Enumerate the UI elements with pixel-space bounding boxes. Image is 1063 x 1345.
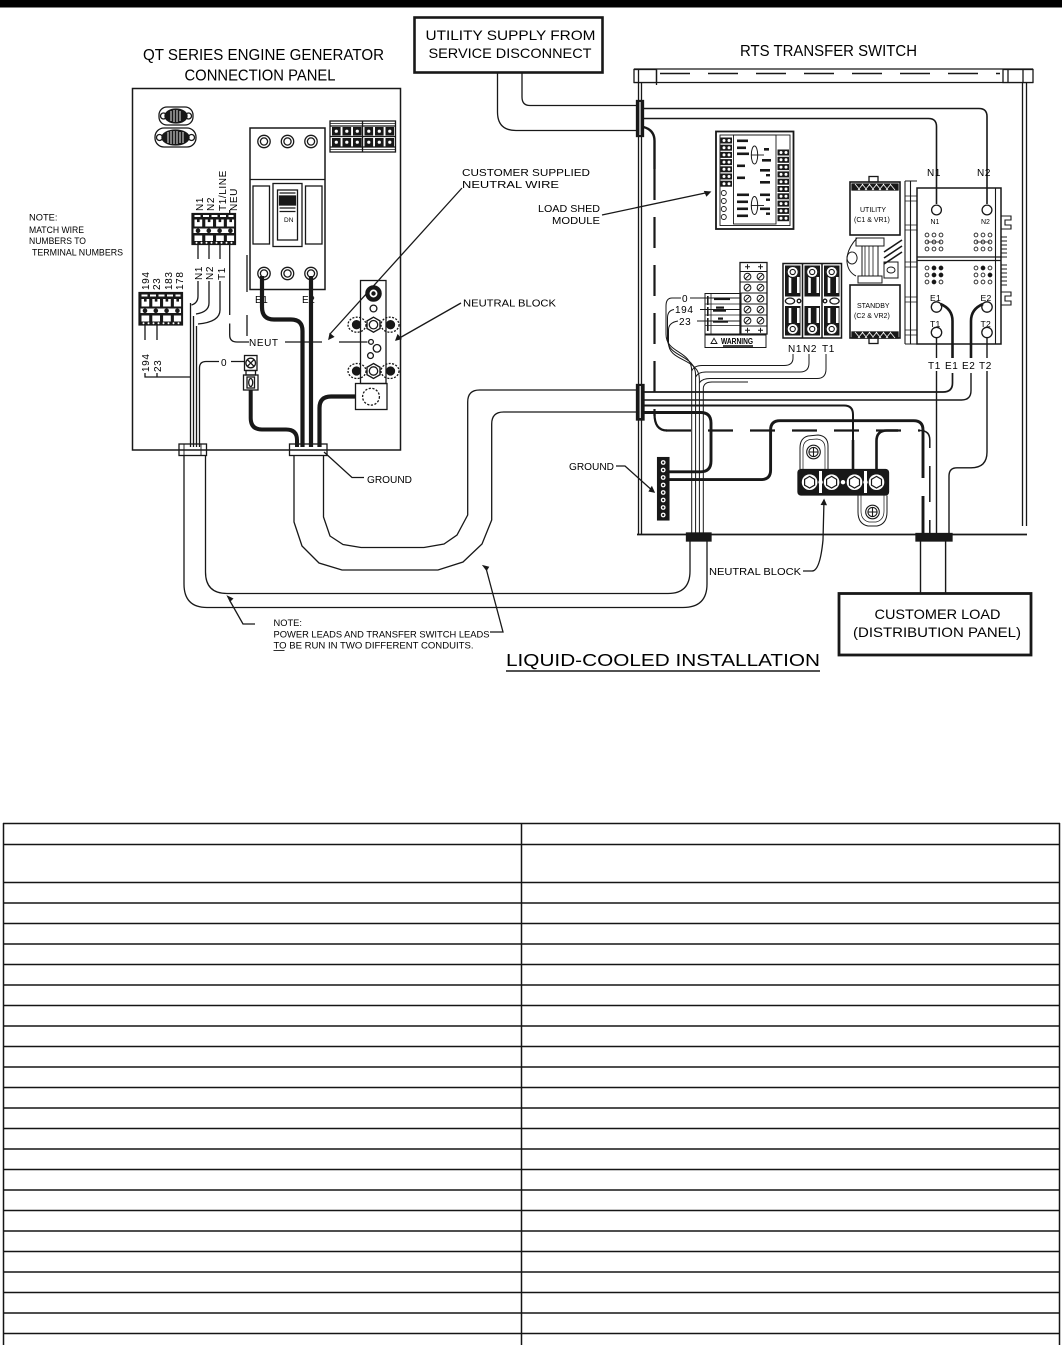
- RTS neutral block: [798, 435, 889, 526]
- ground leader (left): [324, 452, 364, 478]
- thick run ground strip to customer load drop: [669, 421, 923, 480]
- left panel bottom flange left: [179, 444, 207, 456]
- hex lug upper: [348, 317, 399, 332]
- svg-text:CUSTOMER SUPPLIED: CUSTOMER SUPPLIED: [462, 168, 590, 179]
- GROUND label (left): [367, 475, 412, 486]
- svg-text:N2: N2: [205, 266, 216, 280]
- E2 wire (thick): [309, 276, 313, 447]
- wire 0 to terminal strip: [690, 297, 740, 299]
- top-left bracket: [634, 70, 657, 83]
- svg-text:N1: N1: [194, 266, 205, 280]
- svg-text:NOTE:: NOTE:: [29, 213, 57, 223]
- RTS borders: [639, 83, 1027, 536]
- wire 0 down to conduit: [666, 298, 692, 533]
- E1 wire (thick): [262, 276, 303, 447]
- svg-text:N2: N2: [206, 197, 217, 211]
- breaker top terminals: [258, 135, 270, 147]
- conduit to customer load: [921, 541, 946, 593]
- svg-text:E2: E2: [962, 361, 975, 372]
- neutral block leader (left): [396, 303, 461, 340]
- T1 wire: [936, 338, 938, 533]
- svg-text:STANDBY: STANDBY: [857, 303, 890, 310]
- hex lug lower: [348, 364, 399, 379]
- svg-text:CUSTOMER LOAD: CUSTOMER LOAD: [875, 606, 1001, 622]
- customer supplied neutral wire leader: [330, 188, 462, 334]
- standby coil box: [850, 285, 900, 344]
- svg-text:SERVICE DISCONNECT: SERVICE DISCONNECT: [429, 45, 592, 61]
- N1 terminal: [932, 205, 942, 215]
- block body: [798, 470, 889, 496]
- neutral block label (left panel): [463, 299, 556, 310]
- utility wires inside to N1 N2: [644, 109, 988, 205]
- 4-pole terminal block TB-B: [192, 214, 236, 245]
- labels T1 E1 E2 T2: [928, 361, 992, 372]
- thick run to ground strip: [644, 413, 712, 472]
- svg-text:GROUND: GROUND: [569, 462, 614, 473]
- transfer mechanism: [847, 238, 902, 283]
- jumper ovals: [751, 146, 757, 164]
- svg-text:LOAD SHED: LOAD SHED: [538, 204, 600, 215]
- 0 194 23 wire labels: [675, 294, 694, 328]
- control terminal strip TB-D: [740, 263, 767, 335]
- 0 label and wire (left panel): [221, 358, 227, 369]
- svg-text:T1: T1: [928, 361, 941, 372]
- load shed module label: [538, 204, 600, 227]
- aux line: [246, 255, 248, 336]
- breaker body: [253, 186, 270, 244]
- terminal strip TB-A (top right of left panel): [330, 121, 396, 152]
- svg-text:NUMBERS TO: NUMBERS TO: [29, 236, 86, 246]
- note: match wire numbers: [29, 213, 123, 258]
- svg-text:23: 23: [679, 317, 691, 328]
- neutral block leader (RTS): [803, 500, 824, 571]
- left panel bottom flange middle: [290, 444, 328, 456]
- fuse block F1-F3: [783, 264, 842, 339]
- conduit middle (power leads U): [294, 412, 637, 570]
- thick wire from terminal 4 joining dashed run: [877, 431, 899, 471]
- rotated labels N1 N2 T1/LINE NEU: [195, 170, 240, 211]
- labels with leaders: customer supplied neutral wire: [462, 168, 590, 191]
- svg-text:N2: N2: [981, 219, 990, 226]
- contactor mount rail: [905, 181, 917, 344]
- top-right bracket: [1003, 70, 1033, 83]
- thick dashed drop to flange: [922, 448, 925, 533]
- svg-text:(C1 & VR1): (C1 & VR1): [854, 217, 890, 224]
- E2 wire from contactor: [971, 304, 983, 358]
- table grid: [3, 823, 1060, 825]
- svg-text:23: 23: [152, 278, 163, 290]
- load shed module leader: [602, 192, 710, 215]
- warning box: [705, 335, 766, 348]
- svg-text:N1: N1: [931, 219, 940, 226]
- svg-text:NEUTRAL BLOCK: NEUTRAL BLOCK: [709, 567, 801, 578]
- left flange (generator leads entry): [637, 385, 645, 421]
- ground leader (RTS): [616, 466, 654, 492]
- right terminal cells: [778, 150, 790, 222]
- bottom lug box: [356, 384, 388, 410]
- LIQUID-COOLED INSTALLATION title: [506, 650, 820, 670]
- load shed module U1: [716, 132, 794, 230]
- bottom-left flange of RTS: [687, 533, 712, 541]
- svg-text:DN: DN: [284, 217, 294, 224]
- svg-text:T2: T2: [979, 361, 992, 372]
- note leader right: [487, 570, 504, 632]
- title: QT SERIES ENGINE GENERATOR CONNECTION PANEL: [143, 47, 384, 85]
- E1 E2 labels: [255, 295, 315, 306]
- ground strip: [658, 458, 670, 521]
- rotated labels 194 23 183 178 above TB-C: [141, 272, 186, 291]
- svg-text:178: 178: [175, 272, 186, 291]
- E1 run: [644, 373, 953, 392]
- svg-text:T1: T1: [217, 267, 228, 280]
- svg-text:N2: N2: [803, 344, 817, 355]
- utility neutral thick dashed: [644, 127, 655, 169]
- E2 run: [644, 373, 972, 400]
- svg-text:MODULE: MODULE: [552, 216, 600, 227]
- T2 wire: [949, 338, 987, 533]
- N1 N2 labels above wires: [927, 168, 991, 179]
- svg-text:TO BE RUN IN TWO DIFFERENT CON: TO BE RUN IN TWO DIFFERENT CONDUITS.: [274, 641, 474, 651]
- wire 194 down to conduit: [668, 310, 696, 534]
- top scan bar: [0, 0, 1062, 8]
- svg-text:WARNING: WARNING: [721, 337, 753, 346]
- svg-text:RTS TRANSFER SWITCH: RTS TRANSFER SWITCH: [740, 43, 917, 60]
- svg-text:0: 0: [221, 358, 227, 369]
- wire 23 down to conduit: [669, 321, 700, 533]
- E1 T1 E2 T2 terminals: [930, 293, 992, 329]
- utility wire 1: [522, 72, 637, 106]
- svg-text:NEUTRAL BLOCK: NEUTRAL BLOCK: [463, 299, 556, 310]
- utility coil box: [850, 177, 900, 236]
- note leader left: [230, 601, 255, 624]
- fuse labels N1 N2 T1: [788, 344, 835, 355]
- svg-text:CONNECTION PANEL: CONNECTION PANEL: [185, 68, 336, 85]
- wire 194 to terminal strip: [700, 309, 740, 311]
- conduit left (control wires): [184, 456, 707, 608]
- utility supply box: [415, 18, 603, 73]
- inline fuse component: [244, 356, 259, 391]
- GROUND label (RTS): [569, 462, 614, 473]
- svg-text:NEUTRAL WIRE: NEUTRAL WIRE: [462, 180, 559, 191]
- svg-text:NOTE:: NOTE:: [274, 618, 302, 628]
- svg-text:194: 194: [141, 354, 152, 373]
- board text smudges: [737, 140, 771, 218]
- svg-text:T1: T1: [822, 344, 835, 355]
- svg-text:GROUND: GROUND: [367, 475, 412, 486]
- bottom right flange: [916, 534, 952, 542]
- left flange (utility wires): [637, 101, 644, 137]
- svg-text:NEUT: NEUT: [249, 338, 279, 349]
- NEUT label and neutral run: [249, 338, 279, 349]
- ground wire from fuse (thick): [251, 390, 297, 447]
- customer load box: [839, 594, 1031, 656]
- left panel neutral block NB1: [348, 281, 399, 410]
- breaker bottom terminals: [258, 267, 270, 279]
- svg-text:N1: N1: [788, 344, 802, 355]
- NEUTRAL BLOCK label: [709, 567, 801, 578]
- NOTE bottom-left: [274, 618, 490, 651]
- neutral block thick wire to flange: [320, 397, 356, 448]
- left terminal cells: [721, 138, 733, 187]
- svg-text:LIQUID-COOLED INSTALLATION: LIQUID-COOLED INSTALLATION: [506, 650, 820, 670]
- connector J2: [155, 128, 196, 147]
- svg-text:0: 0: [682, 294, 688, 305]
- svg-text:N1: N1: [195, 197, 206, 211]
- right side hooks: [996, 188, 1012, 344]
- svg-text:E2: E2: [302, 295, 315, 306]
- connector J1: [159, 107, 193, 125]
- svg-text:(C2 & VR2): (C2 & VR2): [854, 313, 890, 320]
- terminal block TB-C (194/23/183/178): [139, 293, 183, 326]
- mount tab upper-left: [800, 435, 828, 469]
- main contact block: [917, 188, 1011, 344]
- svg-text:N1: N1: [927, 168, 941, 179]
- svg-text:194: 194: [675, 305, 694, 316]
- E1 wire from contactor: [941, 304, 953, 358]
- thin wires from fuse stubs to bundle: [692, 354, 793, 371]
- svg-text:TERMINAL NUMBERS: TERMINAL NUMBERS: [32, 248, 123, 258]
- label box: [705, 294, 741, 335]
- wire from label box down to conduit: [703, 382, 748, 533]
- svg-text:(DISTRIBUTION PANEL): (DISTRIBUTION PANEL): [853, 624, 1021, 640]
- left panel border: [133, 89, 401, 451]
- svg-text:E1: E1: [945, 361, 958, 372]
- dot grids lower: [925, 266, 992, 284]
- svg-text:194: 194: [141, 272, 152, 291]
- wires below TB-C with labels 194 23: [145, 325, 157, 340]
- svg-text:183: 183: [164, 272, 175, 291]
- NEU wire: [230, 210, 249, 342]
- svg-text:T1/LINE: T1/LINE: [218, 170, 229, 211]
- mount tab lower: [858, 496, 887, 527]
- svg-text:NEU: NEU: [229, 188, 240, 211]
- svg-text:UTILITY: UTILITY: [860, 207, 886, 214]
- svg-text:POWER LEADS AND TRANSFER SWITC: POWER LEADS AND TRANSFER SWITCH LEADS: [274, 630, 490, 640]
- utility wire 2: [498, 72, 638, 131]
- neutral run to neutral block: [644, 406, 854, 471]
- wires below TB-B with rotated labels N1 N2 T1: [198, 244, 220, 259]
- N2 terminal: [982, 205, 992, 215]
- circuit breaker CB1: [250, 128, 325, 290]
- svg-text:QT SERIES ENGINE GENERATOR: QT SERIES ENGINE GENERATOR: [143, 47, 384, 64]
- thick wire into block terminal 3: [852, 440, 855, 470]
- svg-text:UTILITY SUPPLY FROM: UTILITY SUPPLY FROM: [426, 27, 596, 43]
- wire 23 to terminal strip: [697, 320, 740, 322]
- wire bundle left vertical: [191, 303, 197, 447]
- dot grids upper: [925, 233, 992, 251]
- svg-text:23: 23: [153, 360, 164, 372]
- svg-text:N2: N2: [977, 168, 991, 179]
- svg-text:MATCH WIRE: MATCH WIRE: [29, 225, 84, 235]
